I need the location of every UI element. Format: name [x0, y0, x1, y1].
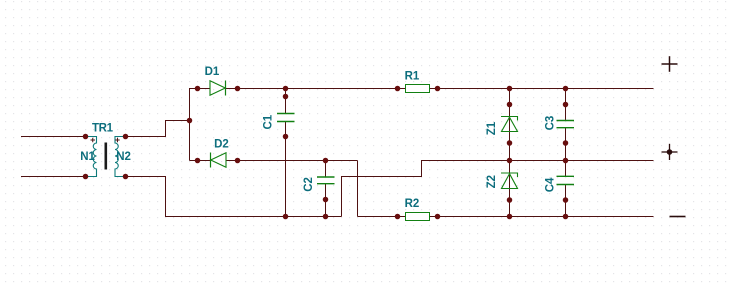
svg-text:N1: N1: [80, 151, 95, 163]
junction C1 bottom rail: [283, 214, 289, 220]
wire top rail: [226, 88, 654, 90]
svg-text:C2: C2: [303, 177, 315, 192]
wire D1 anode: [190, 88, 211, 90]
svg-text:C1: C1: [263, 114, 275, 129]
svg-text:D1: D1: [205, 66, 220, 78]
capacitor C1: [277, 114, 295, 122]
junction Z1 pin top: [507, 102, 513, 108]
svg-text:N2: N2: [116, 151, 131, 163]
terminal minus output: [670, 216, 686, 218]
junction C3 pin top: [563, 102, 569, 108]
junction C2 top: [323, 158, 329, 164]
resistor R2: [405, 198, 430, 221]
wire D2 down: [357, 161, 359, 217]
junction R1 right: [435, 86, 441, 92]
junction C middle rail: [563, 158, 569, 164]
TR1 winding N1: [86, 137, 97, 177]
junction D2 anode: [235, 158, 241, 164]
junction D1 cathode: [235, 86, 241, 92]
wire TR1 N2 bottom to bottom rail: [125, 177, 342, 217]
junction TR1 pin 4: [123, 174, 129, 180]
wire C2 bottom lead: [325, 184, 327, 217]
wire C2 top lead: [325, 161, 327, 177]
wire D2 cathode: [190, 160, 211, 162]
wire middle rail detour: [342, 161, 654, 217]
wire trunk vertical: [189, 88, 191, 161]
zener diode Z2: [501, 173, 518, 189]
junction Z2 bottom rail: [507, 214, 513, 220]
TR1 core: [105, 143, 108, 170]
junction TR1 pin 2: [83, 174, 89, 180]
wire Z1 Z2 column: [509, 89, 511, 217]
junction C4 pin bottom: [563, 197, 569, 203]
junction C1 top rail: [283, 86, 289, 92]
terminal mid output node: [662, 144, 678, 160]
transformer TR1: [80, 122, 131, 176]
junction Z1 pin bottom: [507, 140, 513, 146]
wire bottom rail right: [358, 216, 654, 218]
svg-text:C4: C4: [545, 177, 557, 192]
junction Z1 top rail: [507, 86, 513, 92]
TR1 winding N2: [115, 137, 125, 177]
junction D1 anode: [195, 86, 201, 92]
junction Z2 pin bottom: [507, 197, 513, 203]
wire D2 row: [226, 160, 358, 162]
wire C4 bottom lead: [565, 185, 567, 217]
junction C1 pin top: [283, 94, 289, 100]
junction R2 right: [435, 214, 441, 220]
wire TR1 N2 top to trunk: [125, 121, 190, 137]
svg-text:R2: R2: [405, 198, 420, 210]
svg-text:Z1: Z1: [486, 121, 498, 135]
capacitor C4: [557, 176, 575, 184]
junction C2 bottom rail: [323, 214, 329, 220]
svg-text:TR1: TR1: [92, 122, 114, 134]
zener diode Z1: [501, 117, 518, 132]
junction C2 pin bottom: [323, 197, 329, 203]
capacitor C3: [557, 121, 575, 128]
wire C1 bottom lead: [285, 122, 287, 217]
wire input top: [21, 136, 86, 138]
junction D2 cathode: [195, 158, 201, 164]
svg-text:R1: R1: [405, 71, 420, 83]
junction Z middle rail: [507, 158, 513, 164]
junction C1 pin bottom: [283, 134, 289, 140]
junction TR1 pin 1: [83, 134, 89, 140]
svg-text:D2: D2: [214, 138, 229, 150]
svg-text:Z2: Z2: [486, 175, 498, 188]
terminal plus output: [662, 56, 678, 72]
TR1 N2 polarity plus: [115, 138, 120, 143]
wire C3 C4 middle lead: [565, 128, 567, 176]
TR1 N1 polarity plus: [91, 138, 96, 143]
resistor R1: [405, 71, 430, 93]
diode D2: [211, 138, 229, 167]
junction R2 left: [395, 214, 401, 220]
svg-text:C3: C3: [545, 116, 557, 131]
wire C3 top lead: [565, 89, 567, 121]
junction R1 left: [395, 86, 401, 92]
diode D1: [205, 66, 226, 95]
wire C1 top lead: [285, 89, 287, 114]
wire input bottom: [21, 176, 86, 178]
junction C4 bottom rail: [563, 214, 569, 220]
junction C3 pin bottom: [563, 140, 569, 146]
junction C3 top rail: [563, 86, 569, 92]
junction TR1 pin 3: [123, 134, 129, 140]
junction trunk node: [187, 118, 193, 124]
capacitor C2: [317, 177, 335, 184]
